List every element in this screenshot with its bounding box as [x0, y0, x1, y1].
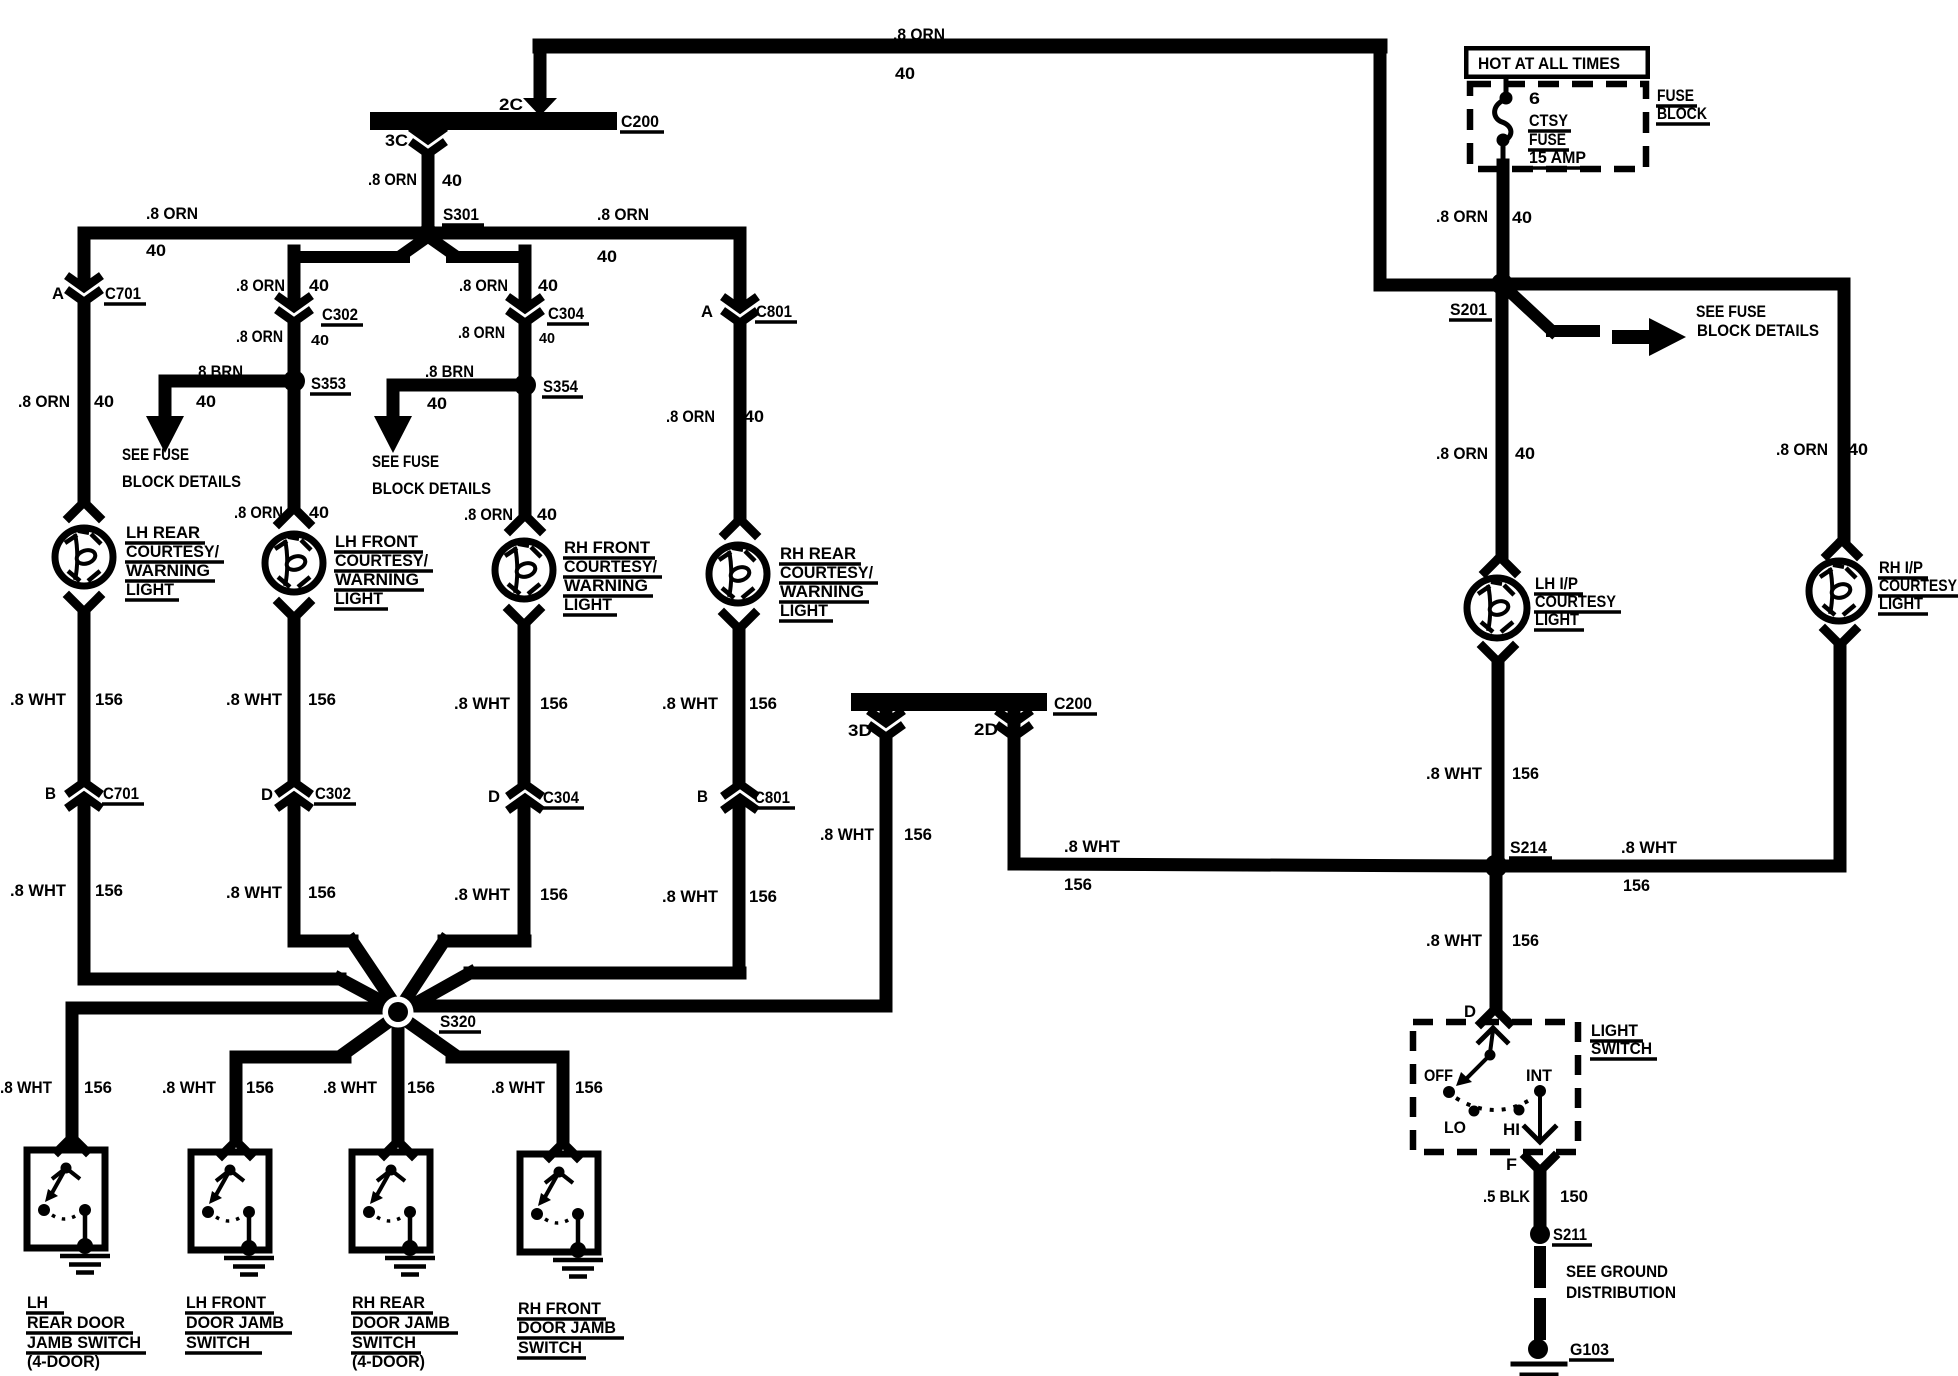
svg-text:156: 156: [1512, 932, 1539, 950]
label HI: [1503, 1121, 1520, 1139]
wire C701-A to LH REAR lamp: [78, 233, 91, 502]
svg-text:3C: 3C: [385, 132, 408, 150]
svg-text:.8 ORN: .8 ORN: [458, 324, 505, 342]
label .8 ORN (col1): [18, 393, 70, 411]
svg-text:15 AMP: 15 AMP: [1529, 149, 1586, 167]
svg-text:40: 40: [309, 277, 329, 295]
label 15 AMP: [1528, 149, 1589, 168]
label .8 WHT (col4 upper): [662, 695, 718, 713]
label FUSE BLOCK: [1656, 87, 1710, 124]
label 40 (above C304): [538, 277, 558, 295]
label B (C701 lower): [45, 785, 56, 803]
svg-text:6: 6: [1529, 90, 1540, 108]
svg-text:LIGHT: LIGHT: [126, 581, 174, 599]
label RH FRONT (jamb sw 4): [517, 1300, 606, 1319]
switch LH REAR DOOR JAMB SWITCH: [27, 1150, 110, 1273]
wire C801-B to S320: [404, 973, 740, 1010]
label S301: [442, 206, 484, 232]
terminal fork RH FRONT lamp bottom: [509, 610, 539, 625]
label .8 ORN (RH I/P): [1776, 441, 1828, 459]
connector C701 pin A (upper): [70, 278, 98, 302]
switch LIGHT SWITCH dashed box: [1413, 1022, 1578, 1152]
wire S201 to RH I/P lamp: [1502, 284, 1844, 538]
wire S320 to RH REAR jamb switch: [392, 1024, 405, 1141]
svg-text:CTSY: CTSY: [1529, 112, 1568, 130]
svg-text:.8 WHT: .8 WHT: [226, 691, 282, 709]
label SWITCH (jamb sw 2): [185, 1334, 262, 1353]
svg-text:.8 BRN: .8 BRN: [425, 363, 474, 381]
connector C304 pin D (lower): [511, 784, 539, 808]
label COURTESY/ (RH REAR): [779, 564, 878, 583]
wire S354 to fuse block arrow: [393, 385, 525, 420]
contact LO: [1469, 1106, 1480, 1117]
light switch wiper arm: [1456, 1028, 1507, 1086]
label 40 (S301 left): [146, 242, 166, 260]
svg-text:.8 WHT: .8 WHT: [10, 691, 66, 709]
label (4-DOOR) (jamb sw 3): [352, 1353, 425, 1371]
svg-text:C200: C200: [621, 113, 659, 131]
svg-text:156: 156: [95, 882, 123, 900]
lamp LH FRONT COURTESY/WARNING LIGHT: [265, 534, 323, 592]
svg-text:RH REAR: RH REAR: [352, 1294, 425, 1312]
svg-text:F: F: [1506, 1156, 1517, 1174]
label .8 ORN (below C304): [458, 324, 505, 342]
svg-text:FUSE: FUSE: [1657, 87, 1694, 105]
label A (C701 upper): [52, 285, 64, 303]
lamp LH I/P COURTESY LIGHT: [1467, 578, 1527, 638]
svg-text:SEE FUSE: SEE FUSE: [1696, 303, 1766, 321]
label .8 WHT (jamb sw 3): [323, 1079, 377, 1097]
wire RH REAR lamp to C801-B: [733, 629, 746, 966]
label 156 (col1 upper): [95, 691, 123, 709]
svg-text:COURTESY/: COURTESY/: [335, 552, 428, 570]
splice S201: [1491, 273, 1513, 295]
svg-text:40: 40: [427, 395, 447, 413]
label .8 WHT (col2 lower): [226, 884, 282, 902]
label .8 WHT (3D wire): [820, 826, 874, 844]
label LIGHT SWITCH: [1590, 1022, 1657, 1059]
label F (light switch): [1506, 1156, 1517, 1174]
svg-text:WARNING: WARNING: [126, 562, 210, 580]
svg-text:156: 156: [540, 886, 568, 904]
wire S353 to LH FRONT lamp: [288, 381, 301, 508]
wire C304-D to S320: [400, 941, 525, 1008]
label .8 ORN (above C304): [459, 277, 508, 295]
label S320: [439, 1013, 481, 1032]
terminal fork RH I/P lamp bottom: [1825, 630, 1855, 645]
label 40 (col4): [744, 408, 764, 426]
label 150: [1560, 1188, 1588, 1206]
label 156 (col2 lower): [308, 884, 336, 902]
label COURTESY/ (LH REAR): [125, 543, 224, 562]
wire S301 to C302 branch diagonal: [294, 238, 426, 381]
svg-text:LIGHT: LIGHT: [1879, 595, 1923, 613]
label C801 (lower): [753, 789, 795, 808]
label LH REAR: [125, 524, 205, 543]
label 156 (jamb sw 3): [407, 1079, 435, 1097]
label 156 (jamb sw 4): [575, 1079, 603, 1097]
label C701 (lower): [102, 785, 144, 804]
svg-text:156: 156: [1512, 765, 1539, 783]
svg-text:DOOR JAMB: DOOR JAMB: [352, 1314, 450, 1332]
svg-text:40: 40: [1848, 441, 1868, 459]
lamp RH REAR COURTESY/WARNING LIGHT: [709, 545, 767, 603]
label LH FRONT (jamb sw 2): [185, 1294, 274, 1313]
svg-text:.8 ORN: .8 ORN: [236, 328, 283, 346]
label 156 (col3 lower): [540, 886, 568, 904]
wire C801-A to RH REAR lamp: [734, 233, 747, 519]
svg-text:BLOCK: BLOCK: [1657, 105, 1707, 123]
terminal fork RH FRONT lamp top: [510, 515, 540, 530]
label S214: [1509, 839, 1552, 858]
svg-text:40: 40: [94, 393, 114, 411]
label D (C304 lower): [488, 788, 500, 806]
svg-text:.8 BRN: .8 BRN: [194, 363, 243, 381]
svg-text:C302: C302: [322, 306, 358, 324]
pin 2C arrow into C200: [523, 98, 557, 116]
label C701 (upper): [104, 285, 146, 304]
svg-text:WARNING: WARNING: [335, 571, 419, 589]
label BLOCK DETAILS (left): [122, 473, 241, 491]
svg-text:2C: 2C: [499, 96, 523, 114]
label 40 (RH I/P): [1848, 441, 1868, 459]
label .8 WHT (jamb sw 4): [491, 1079, 545, 1097]
label LIGHT (RH I/P): [1878, 595, 1928, 614]
svg-text:COURTESY: COURTESY: [1535, 593, 1616, 611]
terminal fork LH I/P lamp top: [1485, 557, 1515, 572]
svg-text:RH FRONT: RH FRONT: [564, 539, 650, 557]
label D (light switch): [1464, 1003, 1476, 1021]
lamp RH FRONT COURTESY/WARNING LIGHT: [495, 541, 553, 599]
svg-text:A: A: [701, 303, 713, 321]
label SEE GROUND: [1566, 1263, 1668, 1281]
label .8 ORN (top feed): [893, 26, 945, 44]
svg-text:C200: C200: [1054, 695, 1092, 713]
label .8 ORN (col4): [666, 408, 715, 426]
wire S320 to LH FRONT jamb switch: [236, 1017, 395, 1141]
label .8 ORN (C200-S301): [368, 171, 417, 189]
contact OFF: [1443, 1086, 1455, 1098]
svg-text:40: 40: [597, 248, 617, 266]
connector C304 pin A (upper): [511, 299, 539, 323]
svg-text:C304: C304: [548, 305, 585, 323]
svg-text:.8 ORN: .8 ORN: [459, 277, 508, 295]
label S211: [1552, 1226, 1592, 1245]
svg-text:WARNING: WARNING: [564, 577, 648, 595]
svg-text:.8 WHT: .8 WHT: [1064, 838, 1120, 856]
label CTSY: [1528, 112, 1571, 131]
svg-text:40: 40: [311, 332, 329, 349]
svg-text:.8 WHT: .8 WHT: [226, 884, 282, 902]
svg-text:.8 ORN: .8 ORN: [1436, 445, 1488, 463]
wire C304 to S354: [519, 331, 532, 385]
svg-text:FUSE: FUSE: [1529, 131, 1566, 149]
svg-text:40: 40: [309, 504, 329, 522]
wire light switch to S211: [1534, 1171, 1547, 1226]
terminal fork RH I/P lamp top: [1827, 540, 1857, 555]
label .5 BLK: [1483, 1188, 1530, 1206]
svg-text:.8 WHT: .8 WHT: [1426, 765, 1482, 783]
label RH REAR (jamb sw 3): [351, 1294, 433, 1313]
arrow to fuse block details (left): [146, 416, 184, 453]
svg-text:C302: C302: [315, 785, 351, 803]
label LIGHT (LH I/P): [1534, 611, 1584, 630]
wire S301 left to C701 branch: [84, 227, 428, 240]
label OFF: [1424, 1067, 1453, 1085]
label LIGHT (RH REAR): [779, 602, 833, 621]
label LH (jamb sw 1): [26, 1294, 64, 1313]
label 156 (col2 upper): [308, 691, 336, 709]
wire .8 ORN 40 main feed (top): [540, 46, 1380, 100]
switch LH FRONT DOOR JAMB SWITCH: [191, 1152, 274, 1275]
label LIGHT (LH REAR): [125, 581, 179, 600]
label .8 ORN (LH I/P): [1436, 445, 1488, 463]
svg-text:S353: S353: [311, 375, 346, 393]
svg-text:SEE GROUND: SEE GROUND: [1566, 1263, 1668, 1281]
label .8 WHT (2D-S214): [1064, 838, 1120, 856]
splice S211: [1530, 1224, 1550, 1244]
wire LH REAR lamp to C701-B: [78, 612, 91, 972]
label 40 (S354): [427, 395, 447, 413]
svg-text:.8 ORN: .8 ORN: [1436, 208, 1488, 226]
svg-text:RH REAR: RH REAR: [780, 545, 856, 563]
svg-text:40: 40: [1512, 209, 1532, 227]
svg-text:C701: C701: [103, 785, 139, 803]
svg-text:LH FRONT: LH FRONT: [335, 533, 418, 551]
svg-text:40: 40: [895, 65, 915, 83]
svg-text:SEE FUSE: SEE FUSE: [372, 453, 439, 471]
label C801 (upper): [755, 303, 797, 322]
label C304 (upper): [547, 305, 589, 324]
svg-text:REAR DOOR: REAR DOOR: [27, 1314, 125, 1332]
connector C302 pin D (lower): [280, 782, 308, 806]
connector C302 pin A (upper): [280, 298, 308, 322]
label .8 ORN (S301 left): [146, 205, 198, 223]
wire C302 to S353: [288, 330, 301, 381]
svg-text:G103: G103: [1570, 1341, 1609, 1359]
wire C701-B to S320: [84, 979, 396, 1009]
svg-text:.8 WHT: .8 WHT: [1426, 932, 1482, 950]
label RH FRONT: [563, 539, 655, 558]
svg-text:.8 ORN: .8 ORN: [464, 506, 513, 524]
svg-text:DISTRIBUTION: DISTRIBUTION: [1566, 1284, 1676, 1302]
ground G103: [1513, 1339, 1565, 1375]
terminal fork RH REAR lamp top: [725, 519, 755, 534]
label C200: [620, 113, 664, 132]
splice S301: [419, 224, 438, 243]
label RH I/P: [1878, 559, 1928, 578]
svg-text:.8 ORN: .8 ORN: [146, 205, 198, 223]
svg-text:156: 156: [575, 1079, 603, 1097]
connector C200 (left bar): [370, 112, 617, 130]
terminal fork light switch F: [1526, 1157, 1554, 1171]
label 156 (col1 lower): [95, 882, 123, 900]
label .8 WHT (col3 upper): [454, 695, 510, 713]
label .8 ORN (col2): [234, 504, 283, 522]
svg-text:.5 BLK: .5 BLK: [1483, 1188, 1530, 1206]
label 40 (below C304): [539, 330, 555, 347]
svg-text:.8 WHT: .8 WHT: [491, 1079, 545, 1097]
wire RH I/P lamp to S214: [1496, 645, 1840, 866]
svg-text:.8 WHT: .8 WHT: [162, 1079, 216, 1097]
label G103: [1569, 1341, 1614, 1360]
label .8 WHT (LH I/P-S214): [1426, 765, 1482, 783]
wire S320 to RH FRONT jamb switch: [401, 1017, 563, 1143]
svg-text:156: 156: [1064, 876, 1092, 894]
fuse block dashed box: [1470, 84, 1646, 169]
svg-text:LIGHT: LIGHT: [1535, 611, 1579, 629]
label 3D: [848, 722, 872, 740]
fuse CTSY FUSE 15 AMP: [1495, 92, 1513, 147]
svg-text:COURTESY: COURTESY: [1879, 577, 1957, 595]
label 156 (col4 lower): [749, 888, 777, 906]
label 6 (fuse): [1529, 90, 1540, 108]
svg-text:156: 156: [904, 826, 932, 844]
terminal fork RH FRONT jamb switch: [549, 1143, 577, 1157]
wire LH I/P lamp to S214: [1492, 662, 1505, 866]
label REAR DOOR (jamb sw 1): [26, 1314, 133, 1333]
switch RH REAR DOOR JAMB SWITCH: [352, 1152, 435, 1275]
label S201: [1449, 301, 1492, 320]
label COURTESY/ (LH FRONT): [334, 552, 433, 571]
pin 3D connector chevrons: [872, 713, 900, 737]
label 3C: [385, 132, 408, 150]
label .8 WHT (jamb sw 1): [0, 1079, 52, 1097]
svg-text:HOT AT ALL TIMES: HOT AT ALL TIMES: [1478, 55, 1620, 73]
label RH REAR: [779, 545, 861, 564]
wire S301 right to C801 branch: [428, 227, 740, 240]
svg-text:.8 ORN: .8 ORN: [1776, 441, 1828, 459]
svg-text:(4-DOOR): (4-DOOR): [27, 1353, 100, 1371]
svg-text:D: D: [488, 788, 500, 806]
svg-text:BLOCK DETAILS: BLOCK DETAILS: [122, 473, 241, 491]
wire S301 to C304 branch diagonal: [430, 238, 525, 385]
svg-text:SWITCH: SWITCH: [518, 1339, 582, 1357]
svg-text:C304: C304: [543, 789, 580, 807]
label .8 ORN (fuse-S201): [1436, 208, 1488, 226]
label WARNING (LH FRONT): [334, 571, 424, 590]
label S353: [310, 375, 351, 394]
svg-text:LO: LO: [1444, 1119, 1466, 1137]
terminal fork LH I/P lamp bottom: [1483, 647, 1513, 662]
wire S320 to LH REAR jamb switch: [72, 1008, 393, 1140]
svg-text:DOOR JAMB: DOOR JAMB: [518, 1319, 616, 1337]
label 40 (above C302): [309, 277, 329, 295]
wire S214 to light switch: [1490, 866, 1503, 1007]
splice S214: [1485, 855, 1508, 878]
svg-text:LIGHT: LIGHT: [1591, 1022, 1638, 1040]
wire S201 to LH I/P lamp: [1496, 284, 1509, 555]
contact HI: [1514, 1105, 1525, 1116]
label COURTESY (LH I/P): [1534, 593, 1621, 612]
svg-text:LIGHT: LIGHT: [335, 590, 383, 608]
svg-text:BLOCK DETAILS: BLOCK DETAILS: [1697, 322, 1819, 340]
wire fuse to S201: [1501, 141, 1506, 284]
label 156 (S214-switch): [1512, 932, 1539, 950]
svg-text:S320: S320: [440, 1013, 476, 1031]
svg-text:156: 156: [749, 888, 777, 906]
connector C801 pin A (upper): [726, 299, 754, 323]
svg-text:S301: S301: [443, 206, 479, 224]
svg-text:.8 ORN: .8 ORN: [234, 504, 283, 522]
svg-text:LIGHT: LIGHT: [780, 602, 828, 620]
arrow to fuse block details (mid): [374, 416, 412, 453]
label SEE FUSE (left): [122, 446, 189, 464]
label 156 (LH I/P-S214): [1512, 765, 1539, 783]
label SEE FUSE (S201): [1696, 303, 1766, 321]
svg-text:40: 40: [146, 242, 166, 260]
label .8 WHT (col2 upper): [226, 691, 282, 709]
svg-text:.8 WHT: .8 WHT: [662, 695, 718, 713]
label C302 (upper): [321, 306, 363, 325]
label 156 (2D-S214): [1064, 876, 1092, 894]
wire 2D to S214: [1014, 711, 1496, 866]
svg-text:40: 40: [539, 330, 555, 347]
svg-text:.8 WHT: .8 WHT: [454, 886, 510, 904]
connector C801 pin B (lower): [726, 784, 754, 808]
label C302 (lower): [314, 785, 356, 804]
svg-text:.8 ORN: .8 ORN: [236, 277, 285, 295]
wire S354 to RH FRONT lamp: [519, 385, 532, 515]
terminal fork light switch D: [1481, 1009, 1509, 1023]
label DOOR JAMB (jamb sw 4): [517, 1319, 624, 1338]
label 156 (RH I/P-S214): [1623, 877, 1650, 895]
wire S211 to G103 (dashed): [1534, 1246, 1546, 1340]
splice S353: [283, 370, 305, 392]
lamp RH I/P COURTESY LIGHT: [1809, 561, 1869, 621]
label .8 WHT (RH I/P-S214): [1621, 839, 1677, 857]
svg-text:.8 WHT: .8 WHT: [10, 882, 66, 900]
svg-text:LH I/P: LH I/P: [1535, 575, 1578, 593]
wire LH FRONT lamp to C302-D: [288, 618, 301, 934]
label 40 (below C302): [311, 332, 329, 349]
svg-text:.8 ORN: .8 ORN: [18, 393, 70, 411]
label LH I/P: [1534, 575, 1583, 594]
light switch INT to F arrow: [1525, 1097, 1555, 1142]
svg-text:156: 156: [308, 884, 336, 902]
svg-text:RH FRONT: RH FRONT: [518, 1300, 601, 1318]
label 40 (fuse-S201): [1512, 209, 1532, 227]
label .8 WHT (col3 lower): [454, 886, 510, 904]
label DISTRIBUTION: [1566, 1284, 1676, 1302]
label 40 (S353): [196, 393, 216, 411]
label WARNING (RH REAR): [779, 583, 869, 602]
connector C200 (right bar): [851, 693, 1047, 711]
svg-text:RH I/P: RH I/P: [1879, 559, 1923, 577]
svg-text:156: 156: [246, 1079, 274, 1097]
terminal fork LH FRONT lamp top: [279, 508, 309, 523]
label 2C: [499, 96, 523, 114]
svg-text:SEE FUSE: SEE FUSE: [122, 446, 189, 464]
svg-text:.8 WHT: .8 WHT: [323, 1079, 377, 1097]
svg-text:.8 WHT: .8 WHT: [454, 695, 510, 713]
label 40 (LH I/P): [1515, 445, 1535, 463]
svg-text:40: 40: [744, 408, 764, 426]
label COURTESY/ (RH FRONT): [563, 558, 662, 577]
label .8 ORN (col3): [464, 506, 513, 524]
label BLOCK DETAILS (S201): [1697, 322, 1819, 340]
svg-text:S214: S214: [1510, 839, 1548, 857]
svg-text:B: B: [45, 785, 56, 803]
wire S353 to fuse block arrow: [165, 381, 294, 420]
svg-text:.8 WHT: .8 WHT: [0, 1079, 52, 1097]
terminal fork RH REAR lamp bottom: [724, 614, 754, 629]
label 40 (col3): [537, 506, 557, 524]
label 156 (3D wire): [904, 826, 932, 844]
power label HOT AT ALL TIMES: [1464, 46, 1650, 79]
label 40 (top feed): [895, 65, 915, 83]
label .8 WHT (col1 upper): [10, 691, 66, 709]
